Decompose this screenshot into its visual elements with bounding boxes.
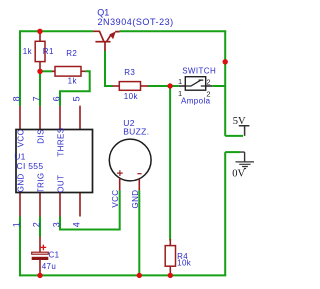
svg-text:VCC: VCC <box>111 190 120 208</box>
svg-text:U1: U1 <box>14 151 25 161</box>
wire junction down to pin 7 <box>39 71 41 106</box>
resistor R4 <box>169 239 171 246</box>
buzzer minus sign <box>137 173 141 175</box>
svg-text:1k: 1k <box>23 47 33 56</box>
svg-text:TRIG: TRIG <box>36 172 45 193</box>
ground symbol <box>240 152 245 162</box>
svg-text:GND: GND <box>16 173 25 192</box>
wire R1 R2 junction to R2 left <box>40 70 53 72</box>
wire pin3 OUT to buzzer VCC pin <box>60 190 120 229</box>
transistor Q1 <box>93 31 120 51</box>
svg-text:2: 2 <box>206 77 210 86</box>
svg-text:5: 5 <box>72 96 82 101</box>
buzzer U2 circle <box>109 139 151 181</box>
svg-text:VCC: VCC <box>16 129 25 147</box>
svg-text:SWITCH: SWITCH <box>182 67 216 76</box>
svg-text:OUT: OUT <box>56 175 65 193</box>
junction dot right rail <box>223 59 228 64</box>
junction dot buzzer GND <box>137 273 142 278</box>
switch body <box>185 77 205 91</box>
wire top rail from left corner to Q1 collector <box>20 30 93 32</box>
wire bottom rail <box>20 274 226 276</box>
svg-text:R3: R3 <box>124 68 135 77</box>
svg-text:R2: R2 <box>66 49 77 58</box>
wire R3 right to switch <box>148 85 179 87</box>
IC pin stubs bottom (1,2,3,4) <box>20 193 80 217</box>
svg-text:2: 2 <box>32 222 42 227</box>
wire pin1 GND drop <box>19 217 21 277</box>
wire R2 right loop to pin 6 <box>60 71 90 106</box>
svg-text:3: 3 <box>52 222 62 227</box>
capacitor C1 <box>39 237 41 253</box>
svg-text:1: 1 <box>178 77 182 86</box>
svg-text:CI 555: CI 555 <box>17 161 44 171</box>
svg-text:DIS: DIS <box>36 129 45 144</box>
junction dot R1/R2/pin7 <box>37 69 42 74</box>
svg-text:GND: GND <box>131 190 140 209</box>
wire junction down to R4 <box>169 86 171 241</box>
resistor R1 <box>39 31 41 41</box>
C1 plus sign <box>41 245 47 251</box>
svg-text:7: 7 <box>32 96 42 101</box>
svg-text:1: 1 <box>12 222 22 227</box>
wire pin2 to C1 <box>39 217 41 238</box>
junction dot C1 bottom <box>37 273 42 278</box>
svg-text:1: 1 <box>178 89 182 98</box>
buzzer plus sign <box>117 170 123 176</box>
wire Q1 base down and to R3 <box>105 51 113 86</box>
junction dot R4 bottom <box>168 273 173 278</box>
svg-text:C1: C1 <box>49 251 60 260</box>
svg-text:R1: R1 <box>43 47 54 56</box>
junction dot R3/switch/R4 <box>167 83 172 88</box>
IC pin stubs top (8,7,6,5) <box>20 106 80 130</box>
wire right rail ground to bottom <box>224 152 226 275</box>
svg-text:5V: 5V <box>233 116 246 127</box>
svg-text:2: 2 <box>206 90 210 99</box>
wire switch right to rail <box>212 85 225 87</box>
svg-text:THRES: THRES <box>56 127 65 156</box>
svg-text:10k: 10k <box>124 92 139 101</box>
resistor R3 <box>113 85 120 87</box>
wire buzzer GND pin to bottom rail <box>138 190 140 275</box>
svg-text:10k: 10k <box>177 259 192 268</box>
wire left rail down to pin 8 <box>19 30 21 106</box>
5V power symbol <box>239 126 250 136</box>
switch leads <box>179 85 212 87</box>
wire Q1 emitter to right rail <box>120 30 227 32</box>
IC U1 555 box <box>16 130 93 193</box>
buzzer pins <box>119 178 121 190</box>
svg-text:2N3904(SOT-23): 2N3904(SOT-23) <box>98 17 174 27</box>
svg-text:1k: 1k <box>68 77 78 86</box>
wire 0V branch <box>225 151 240 153</box>
junction dot R1 top <box>37 29 42 34</box>
svg-text:4: 4 <box>72 222 82 227</box>
wire right rail down to 5V branch <box>224 31 226 136</box>
svg-text:8: 8 <box>12 96 22 101</box>
svg-text:0V: 0V <box>232 169 245 180</box>
svg-text:6: 6 <box>52 96 62 101</box>
svg-text:47u: 47u <box>42 262 57 271</box>
wire 5V branch <box>225 135 243 137</box>
resistor R2 <box>52 70 55 72</box>
svg-text:BUZZ.: BUZZ. <box>123 127 149 137</box>
